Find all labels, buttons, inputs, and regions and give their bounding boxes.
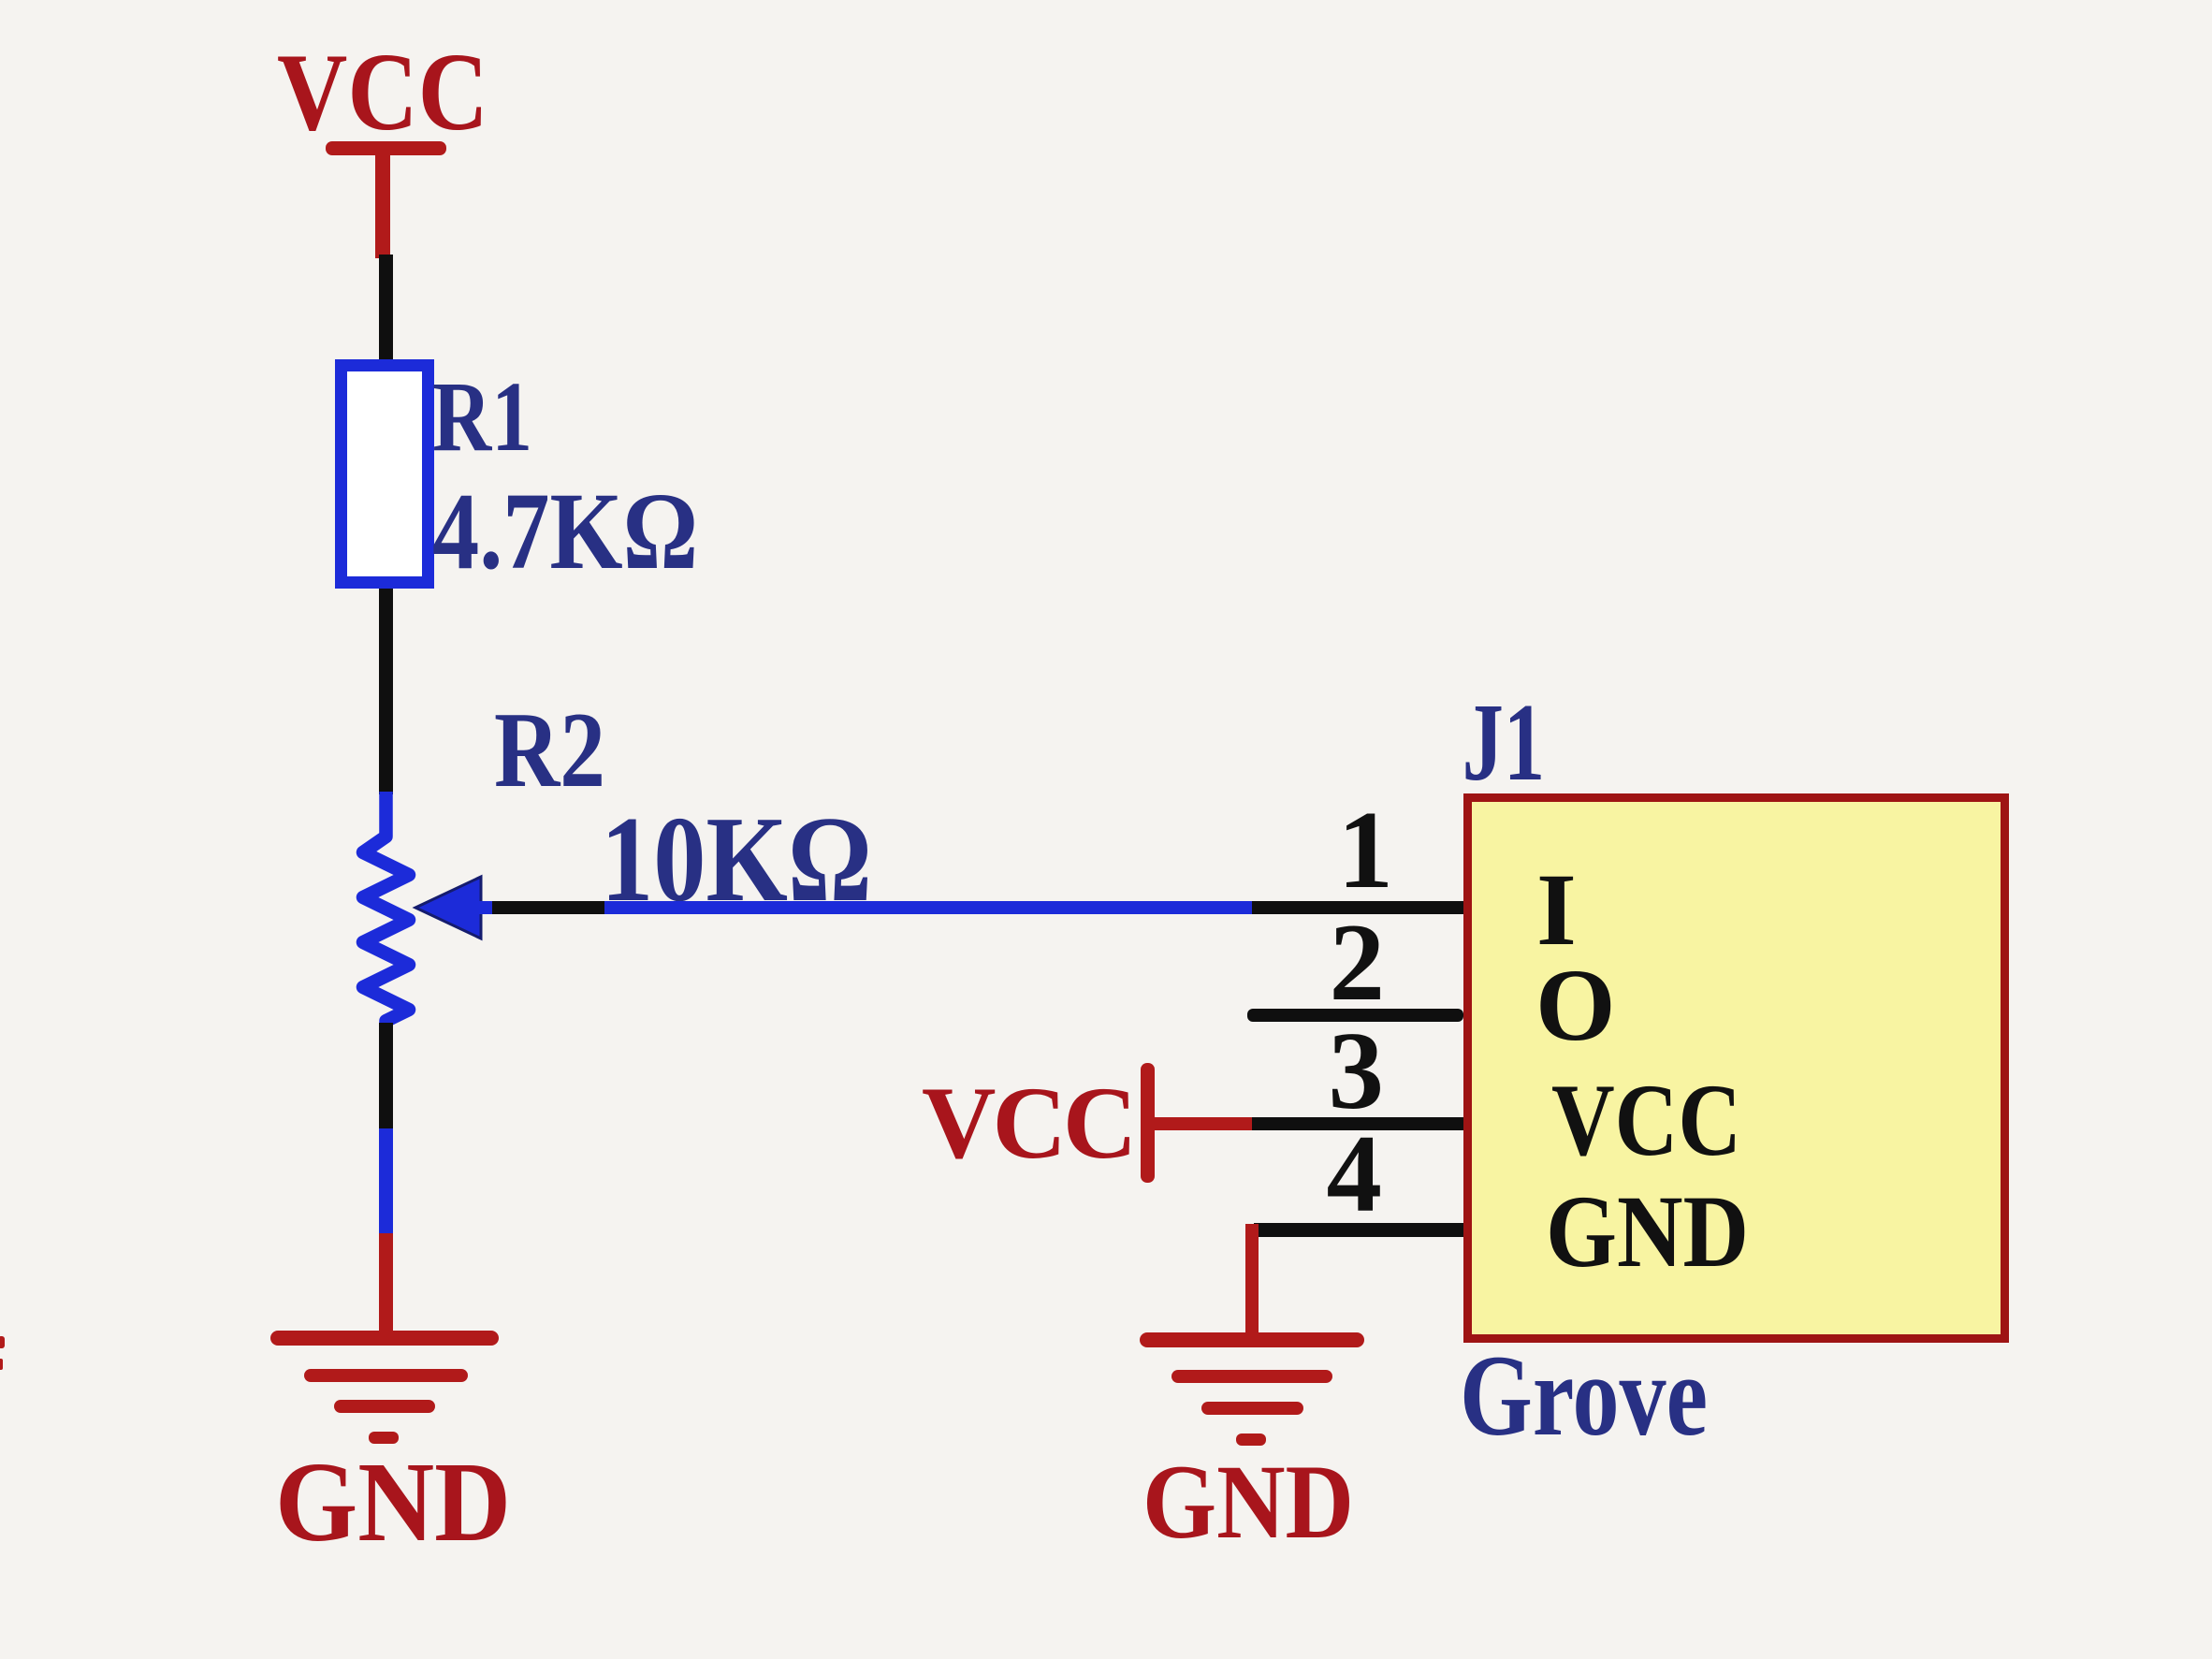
svg-text:1: 1 — [1338, 788, 1394, 911]
svg-text:J1: J1 — [1463, 680, 1546, 804]
svg-text:GND: GND — [1142, 1444, 1354, 1561]
ground symbol GND (right) — [1140, 1332, 1364, 1446]
connector J1 box — [1468, 798, 2005, 1339]
svg-text:GND: GND — [275, 1439, 511, 1565]
wire R1 to R2 — [379, 589, 393, 794]
potentiometer R2 zigzag — [363, 792, 409, 1025]
power symbol VCC (right) — [1141, 1063, 1155, 1183]
wire VCC to R1 — [379, 255, 393, 363]
clipped symbol at left edge — [0, 1336, 5, 1370]
resistor R1 — [342, 366, 429, 583]
ground symbol GND (left) — [270, 1331, 499, 1444]
svg-text:VCC: VCC — [277, 30, 488, 153]
svg-text:VCC: VCC — [1551, 1063, 1741, 1177]
wire R2 to GND (left) — [379, 1023, 393, 1338]
pin 4 wire — [1245, 1223, 1463, 1339]
svg-text:Grove: Grove — [1460, 1332, 1708, 1460]
svg-text:O: O — [1535, 948, 1616, 1062]
svg-text:VCC: VCC — [922, 1066, 1133, 1180]
svg-text:2: 2 — [1330, 900, 1386, 1024]
pin 3 wire — [1147, 1117, 1463, 1130]
potentiometer wiper arrow — [415, 877, 481, 939]
svg-text:4.7KΩ: 4.7KΩ — [432, 470, 698, 592]
svg-text:R2: R2 — [494, 691, 605, 810]
svg-text:GND: GND — [1546, 1174, 1749, 1288]
wire wiper to pin 1 — [477, 901, 1463, 914]
power symbol VCC (top left) — [326, 141, 446, 258]
pin 2 stub wire — [1247, 1009, 1463, 1022]
svg-text:R1: R1 — [432, 362, 532, 473]
